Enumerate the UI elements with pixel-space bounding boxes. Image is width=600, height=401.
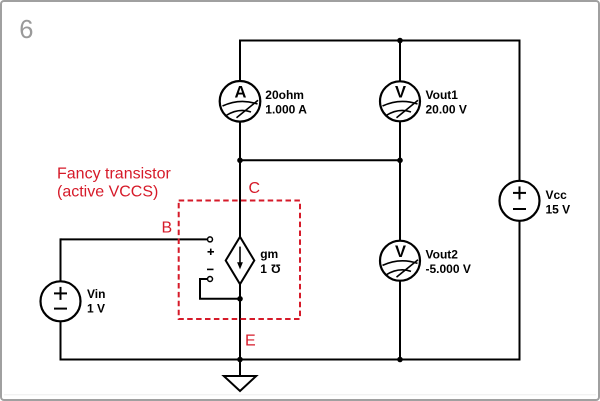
- svg-text:1: 1: [260, 262, 267, 276]
- wire VCCS feedback: [200, 279, 240, 299]
- value label Vout1 20.00 V: [426, 88, 467, 117]
- wire top rail: [240, 40, 520, 42]
- pin + terminal of VCCS: [208, 237, 215, 255]
- svg-text:Vin: Vin: [87, 287, 105, 301]
- ground: [224, 360, 256, 392]
- svg-text:1.000 A: 1.000 A: [265, 103, 307, 117]
- value label Vcc 15 V: [546, 188, 571, 217]
- svg-text:(active VCCS): (active VCCS): [57, 184, 158, 201]
- value label Vout2 -5.000 V: [426, 248, 471, 277]
- node C: [249, 180, 261, 197]
- wire node C to VCCS: [239, 160, 241, 237]
- svg-text:Vcc: Vcc: [546, 188, 568, 202]
- wire bottom rail: [61, 359, 520, 361]
- svg-text:B: B: [162, 219, 173, 236]
- wire Vout1 top: [399, 41, 401, 82]
- wire ammeter bottom to node C: [239, 121, 241, 160]
- junction top rail / Vout1: [397, 38, 403, 44]
- wire node E to ground rail: [239, 299, 241, 360]
- svg-text:6: 6: [19, 16, 33, 44]
- wire Vcc bottom: [519, 220, 521, 360]
- svg-text:V: V: [395, 84, 406, 102]
- wire ammeter top: [239, 40, 241, 82]
- node E: [245, 332, 256, 349]
- pin - terminal of VCCS: [207, 269, 214, 281]
- svg-text:20.00 V: 20.00 V: [426, 103, 467, 117]
- wire Vout2 bottom: [399, 280, 401, 359]
- value label 20ohm 1.000 A: [265, 88, 307, 117]
- value label gm 1 mho: [260, 247, 280, 276]
- annotation text Fancy transistor (active VCCS): [57, 166, 171, 201]
- junction ground rail / Vout2: [397, 357, 403, 363]
- annotation box Fancy transistor (red dashed): [179, 201, 300, 320]
- wire node B horizontal: [61, 238, 208, 240]
- svg-text:Ω: Ω: [271, 262, 281, 276]
- wire Vout2 top: [399, 160, 401, 241]
- voltage source Vcc: [500, 181, 540, 221]
- junction middle rail / Vout2: [397, 158, 403, 164]
- wire VCCS bottom to node E: [239, 284, 241, 299]
- wire Vcc top: [519, 40, 521, 182]
- svg-text:V: V: [395, 243, 406, 261]
- value label Vin 1 V: [87, 287, 105, 316]
- ammeter AM1 20ohm: [220, 81, 261, 122]
- wire Vout1 bottom to middle rail: [399, 121, 401, 161]
- svg-text:E: E: [245, 332, 256, 349]
- svg-text:20ohm: 20ohm: [265, 88, 304, 102]
- svg-text:Vout1: Vout1: [426, 88, 459, 102]
- node B: [162, 219, 173, 236]
- voltmeter Vout1: [380, 81, 420, 121]
- wire Vin top: [60, 238, 62, 281]
- junction node C left: [237, 158, 243, 164]
- wire middle rail C: [240, 159, 400, 161]
- svg-text:gm: gm: [260, 247, 278, 261]
- svg-text:C: C: [249, 180, 261, 197]
- controlled source G1 gm (VCCS diamond): [226, 237, 255, 284]
- svg-text:A: A: [235, 84, 247, 102]
- svg-text:1 V: 1 V: [87, 302, 105, 316]
- junction ground rail / node E: [237, 357, 243, 363]
- junction VCCS output / feedback: [237, 296, 243, 302]
- svg-text:15 V: 15 V: [546, 203, 571, 217]
- voltage source Vin: [41, 281, 81, 321]
- voltmeter Vout2: [380, 241, 420, 281]
- wire Vin bottom: [60, 321, 62, 361]
- svg-text:-5.000 V: -5.000 V: [426, 262, 471, 276]
- svg-text:Fancy transistor: Fancy transistor: [57, 166, 171, 183]
- svg-text:Vout2: Vout2: [426, 248, 459, 262]
